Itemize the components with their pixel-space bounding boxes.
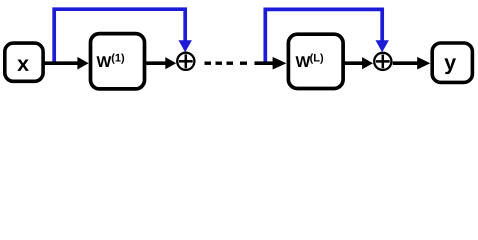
skip connection 2 (blue) <box>265 9 382 62</box>
arrowhead into W(L) <box>273 57 287 70</box>
label W(1) <box>97 56 112 67</box>
label x <box>17 60 29 71</box>
node y (output box) <box>432 43 472 82</box>
skip connection 1 (blue) <box>54 9 185 62</box>
layer W(1) box <box>91 34 145 89</box>
label y <box>444 58 456 74</box>
layer W(L) box <box>288 34 343 88</box>
wire W(L) to adder 2 <box>342 61 364 65</box>
blue arrowhead 2 <box>376 40 389 52</box>
arrowhead into y <box>417 57 430 70</box>
wire W(1) to adder 1 <box>145 61 167 65</box>
adder 2 (circle plus) <box>374 53 391 70</box>
blue arrowhead 1 <box>179 40 192 52</box>
arrowhead into adder 2 <box>362 57 373 69</box>
wire into W(L) <box>255 61 275 65</box>
arrowhead into adder 1 <box>165 57 176 69</box>
adder 1 (circle plus) <box>177 53 194 70</box>
dashed wire (ellipsis) <box>205 62 212 65</box>
label W(L) <box>296 56 311 67</box>
wire adder 2 to y <box>393 61 419 65</box>
wire x to W(1) <box>44 61 79 65</box>
arrowhead into W(1) <box>77 57 88 70</box>
node x (input box) <box>5 43 43 81</box>
